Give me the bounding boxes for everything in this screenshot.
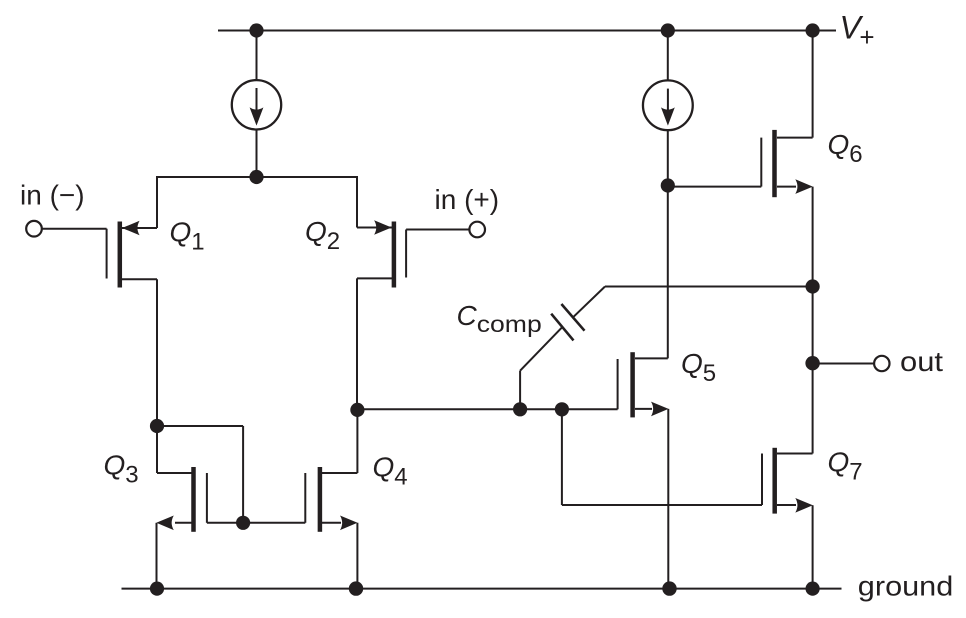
svg-text:Q1: Q1 xyxy=(170,216,205,255)
svg-text:Q7: Q7 xyxy=(828,447,863,486)
svg-text:in (+): in (+) xyxy=(435,184,500,215)
svg-text:Q6: Q6 xyxy=(828,129,863,168)
svg-text:Q2: Q2 xyxy=(305,216,340,255)
svg-text:Q5: Q5 xyxy=(681,348,716,387)
svg-text:out: out xyxy=(900,346,943,377)
svg-text:Q4: Q4 xyxy=(373,451,408,490)
svg-text:in (−): in (−) xyxy=(20,179,85,210)
svg-text:V+: V+ xyxy=(840,9,875,52)
svg-text:Ccomp: Ccomp xyxy=(457,300,542,337)
svg-text:Q3: Q3 xyxy=(104,450,139,489)
svg-text:ground: ground xyxy=(858,571,954,602)
